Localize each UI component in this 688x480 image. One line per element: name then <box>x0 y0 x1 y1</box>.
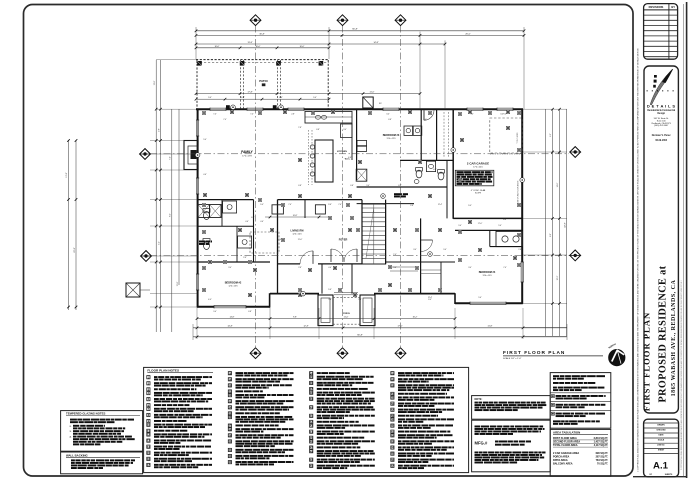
north arrow <box>608 344 625 366</box>
label WIC <box>345 159 351 161</box>
svg-text:(909) 452-3467: (909) 452-3467 <box>654 125 669 127</box>
svg-text:PROPOSED RESIDENCE at: PROPOSED RESIDENCE at <box>657 265 668 402</box>
powder text blobs <box>394 193 408 197</box>
window right wall 2 <box>521 262 524 282</box>
svg-text:13'-8": 13'-8" <box>66 172 68 177</box>
svg-text:JOB NO.: JOB NO. <box>657 445 665 447</box>
svg-text:8'-8": 8'-8" <box>503 219 507 221</box>
svg-text:TOTAL FLOOR AREA: TOTAL FLOOR AREA <box>553 444 578 447</box>
extra keynote boxes <box>202 111 520 291</box>
svg-text:6'-0": 6'-0" <box>279 97 283 99</box>
wall: bath4 bottom <box>490 246 523 248</box>
svg-text:4'-0": 4'-0" <box>208 299 212 301</box>
wall: hall lower right <box>278 199 363 201</box>
svg-text:PORCH: PORCH <box>343 313 350 315</box>
svg-text:1,427 SQ.FT.: 1,427 SQ.FT. <box>594 441 609 444</box>
svg-text:6'-8": 6'-8" <box>248 311 252 313</box>
svg-text:SCALE 1/4" = 1'-0": SCALE 1/4" = 1'-0" <box>503 357 522 360</box>
door arc living to hall <box>300 251 313 264</box>
svg-text:42'-8": 42'-8" <box>564 222 566 227</box>
wall: garage left <box>452 109 454 219</box>
svg-text:5'-0": 5'-0" <box>260 204 264 206</box>
interior dim line living <box>265 215 330 218</box>
svg-text:CHECKED: CHECKED <box>656 429 666 431</box>
svg-text:9'-0": 9'-0" <box>366 185 370 187</box>
svg-text:4,117 SQ.FT.: 4,117 SQ.FT. <box>594 444 609 447</box>
svg-text:AREA TABULATION: AREA TABULATION <box>553 431 580 435</box>
tempered glazing notes box <box>61 411 143 452</box>
svg-text:5'-4": 5'-4" <box>393 267 397 269</box>
wall: laundry bottom <box>400 159 453 161</box>
chimney box <box>363 97 383 108</box>
svg-text:2 CAR GARAGE: 2 CAR GARAGE <box>467 162 489 166</box>
svg-text:7'-0": 7'-0" <box>288 204 292 206</box>
svg-text:7'-0": 7'-0" <box>338 204 342 206</box>
sheet number box A.1 <box>644 419 679 477</box>
svg-text:70 SQ.FT.: 70 SQ.FT. <box>597 463 608 466</box>
keynote boxes <box>203 110 516 296</box>
wall: hall lower left <box>197 199 254 201</box>
svg-text:4'-6": 4'-6" <box>203 174 207 176</box>
window garage top 1 <box>467 108 483 111</box>
svg-text:FLOOR PLAN NOTES: FLOOR PLAN NOTES <box>147 369 179 373</box>
wall: right exterior <box>521 109 523 304</box>
copyright strip vertical tiny text <box>636 48 639 472</box>
patio post P1 <box>197 61 202 66</box>
svg-text:5'-4": 5'-4" <box>498 225 502 227</box>
svg-text:WALL BACKING: WALL BACKING <box>66 453 88 457</box>
entry double door arcs <box>331 249 357 262</box>
wall: bath row vertical 1 <box>221 200 223 227</box>
wall: hall right of stairs <box>386 261 421 263</box>
svg-text:11'-0": 11'-0" <box>344 317 349 319</box>
wall: bedroom2 right step <box>269 293 271 307</box>
svg-text:4'-6": 4'-6" <box>245 221 249 223</box>
dimension chain bottom <box>193 308 567 340</box>
svg-text:9'-0": 9'-0" <box>443 249 447 251</box>
kitchen counter top <box>305 111 352 123</box>
svg-text:TEMPERED GLAZING NOTES: TEMPERED GLAZING NOTES <box>66 412 105 416</box>
closet poles right of stairs <box>390 267 418 271</box>
wall: interior right wing <box>446 161 448 219</box>
svg-text:4'-6": 4'-6" <box>348 157 352 159</box>
room label FAMILY <box>241 150 253 158</box>
wall: stair right <box>385 200 387 264</box>
svg-text:PATIO: PATIO <box>259 79 268 83</box>
svg-text:6'-8": 6'-8" <box>350 185 354 187</box>
svg-text:3'-0": 3'-0" <box>423 119 427 121</box>
svg-text:6'-0": 6'-0" <box>241 97 245 99</box>
door arc bedroom3 hall <box>424 110 434 120</box>
grid reference diamond D at (145,154) <box>140 149 151 160</box>
wall: bedroom3 left <box>356 109 358 180</box>
left wall detail X box <box>126 283 150 297</box>
svg-text:56'-8": 56'-8" <box>357 335 363 337</box>
drawing title FIRST FLOOR PLAN <box>503 350 603 360</box>
wall: stair left <box>361 200 363 264</box>
bath toilet upper <box>203 209 210 220</box>
reference grid dash-dot lines <box>150 26 570 349</box>
room label BEDROOM 4 <box>479 271 496 277</box>
window garage top 2 <box>497 108 513 111</box>
wall: powder bottom <box>357 203 414 205</box>
svg-text:12'-4": 12'-4" <box>438 204 443 206</box>
svg-text:9'-8": 9'-8" <box>293 317 297 319</box>
svg-text:SLOPE: SLOPE <box>475 192 482 194</box>
svg-text:7'-8": 7'-8" <box>298 127 302 129</box>
svg-text:9'-0": 9'-0" <box>458 225 462 227</box>
window top wall 4 <box>383 108 399 111</box>
column box living right <box>315 205 325 214</box>
window top wall 3 <box>288 108 304 111</box>
entry threshold <box>334 293 358 295</box>
bath3b toilet <box>438 170 445 180</box>
wall stub nook <box>304 200 306 218</box>
bath3 sink <box>414 180 419 184</box>
svg-text:5'-4": 5'-4" <box>208 97 212 99</box>
window bedroom4 bottom <box>470 302 506 305</box>
svg-text:LINE OF 2ND FLOOR ABOVE: LINE OF 2ND FLOOR ABOVE <box>516 180 519 204</box>
svg-text:690 SQ.FT.: 690 SQ.FT. <box>596 452 609 455</box>
wall: hall vertical a <box>253 200 255 262</box>
revisions table <box>644 4 678 60</box>
washer <box>357 141 367 152</box>
svg-text:5'-4": 5'-4" <box>328 299 332 301</box>
svg-text:13'0 x 15'0: 13'0 x 15'0 <box>482 275 491 277</box>
svg-text:2'-6": 2'-6" <box>243 257 247 259</box>
wall: bedroom3 right <box>420 109 422 161</box>
svg-text:FIRST FLOOR PLAN: FIRST FLOOR PLAN <box>503 350 565 356</box>
svg-text:DATE: DATE <box>658 433 664 436</box>
svg-text:2'-8": 2'-8" <box>291 114 295 116</box>
sheet right edge border line <box>686 2 688 478</box>
svg-text:10'-0": 10'-0" <box>256 46 261 48</box>
svg-text:5'-4": 5'-4" <box>478 297 482 299</box>
wall: bedroom4 wing left step <box>454 293 456 304</box>
svg-text:BEDROOM #4: BEDROOM #4 <box>479 271 496 274</box>
svg-text:30'-8": 30'-8" <box>259 33 265 35</box>
master closet dashed <box>250 232 279 253</box>
wall: bottom of bedroom2 wing <box>197 306 270 308</box>
svg-text:7'-0": 7'-0" <box>223 119 227 121</box>
room label BEDROOM 2 <box>225 282 242 288</box>
window bedroom2 bottom <box>214 305 246 308</box>
patio post P3 <box>276 61 281 66</box>
closet right wing <box>421 262 441 294</box>
bath label blobs <box>199 241 212 245</box>
dimension chain patio <box>195 92 422 101</box>
svg-text:4'-6": 4'-6" <box>260 221 264 223</box>
svg-text:FOYER: FOYER <box>339 239 348 242</box>
svg-text:12'-8": 12'-8" <box>303 326 308 328</box>
wall: bottom center left of porch <box>270 293 319 295</box>
svg-text:8'-0": 8'-0" <box>550 233 552 237</box>
dimension chain left <box>66 60 197 332</box>
room label FOYER <box>339 239 348 242</box>
window left wall 3 <box>196 274 199 290</box>
closet dashed garage side <box>444 112 449 158</box>
svg-text:11'-8": 11'-8" <box>177 281 179 286</box>
dryer <box>404 126 422 135</box>
svg-text:06-09-2004: 06-09-2004 <box>655 139 667 142</box>
svg-text:9'-0": 9'-0" <box>383 204 387 206</box>
title text 1865 WABASH AVE REDLANDS CA <box>671 280 677 397</box>
kitchen fridge <box>341 124 353 138</box>
svg-text:SHEETS: SHEETS <box>665 474 673 476</box>
wall: hall vertical b <box>277 200 279 294</box>
patio roof dashed outline <box>196 60 329 109</box>
wall: bath4 left <box>489 230 491 246</box>
svg-text:2,844 SQ.FT.: 2,844 SQ.FT. <box>594 437 609 440</box>
svg-text:7'-0": 7'-0" <box>213 114 217 116</box>
garage toc note <box>517 132 519 144</box>
svg-text:5'-4": 5'-4" <box>203 139 207 141</box>
svg-text:10'-0": 10'-0" <box>215 46 220 48</box>
garage slab note <box>471 189 486 195</box>
wall: entry side left <box>321 264 323 294</box>
svg-text:56'-8": 56'-8" <box>352 29 358 31</box>
wall: hall below garage <box>420 218 422 293</box>
svg-text:5'-4": 5'-4" <box>313 97 317 99</box>
svg-text:10'-8": 10'-8" <box>293 215 298 217</box>
window top wall 2 <box>247 108 263 111</box>
grid reference diamond B at (342.5,20.2) <box>337 15 348 26</box>
svg-text:6'-8": 6'-8" <box>316 129 320 131</box>
svg-text:11'-8": 11'-8" <box>488 326 493 328</box>
porch dashed edge <box>333 297 360 324</box>
svg-text:3'-0": 3'-0" <box>386 114 390 116</box>
window top wall 1 <box>210 108 226 111</box>
svg-text:287 SQ.FT.: 287 SQ.FT. <box>596 455 609 458</box>
svg-text:16'-2": 16'-2" <box>413 317 418 319</box>
svg-text:12'0 x 14'0: 12'0 x 14'0 <box>292 234 301 236</box>
circled wall markers <box>195 105 524 296</box>
svg-text:A.1: A.1 <box>653 461 669 472</box>
garage dotted line <box>490 153 521 155</box>
grid reference diamond C at (400.5,353.2) <box>395 348 406 359</box>
svg-text:SCALE: SCALE <box>658 438 665 441</box>
svg-text:26'-0": 26'-0" <box>465 33 471 35</box>
svg-text:NOTE:: NOTE: <box>475 398 483 401</box>
title text PROPOSED RESIDENCE at <box>657 265 668 402</box>
svg-text:23'-8": 23'-8" <box>74 247 76 252</box>
svg-text:13'-8": 13'-8" <box>247 42 252 44</box>
svg-text:17'-8": 17'-8" <box>247 92 252 94</box>
svg-text:2'-8": 2'-8" <box>298 267 302 269</box>
svg-text:14'-8": 14'-8" <box>373 42 378 44</box>
svg-text:REVISIONS: REVISIONS <box>649 5 664 9</box>
linen X cabinets <box>198 205 221 218</box>
svg-text:Norman V. Perez: Norman V. Perez <box>652 134 672 137</box>
svg-text:784 SQ.FT.: 784 SQ.FT. <box>596 459 609 462</box>
svg-text:11'-0": 11'-0" <box>370 92 375 94</box>
title text FIRST FLOOR PLAN <box>642 312 652 411</box>
door arc hall-bedroom4 <box>421 240 433 252</box>
kitchen sink <box>315 115 326 119</box>
insulation notes box <box>550 373 611 429</box>
grid reference diamond E at (575.2,152) <box>570 147 581 158</box>
svg-text:* T.O.C. NOTE: * T.O.C. NOTE <box>517 132 519 144</box>
svg-text:2'-8": 2'-8" <box>358 299 362 301</box>
svg-text:Residential & Commercial: Residential & Commercial <box>647 109 675 112</box>
grid reference diamond C at (400.5,20.2) <box>395 15 406 26</box>
wall: garage bottom <box>453 217 523 219</box>
svg-text:6'-8": 6'-8" <box>298 185 302 187</box>
grid reference diamond B at (342.5,353.2) <box>337 348 348 359</box>
svg-text:FIRST FLOOR PLAN: FIRST FLOOR PLAN <box>642 312 652 411</box>
svg-text:6'-8": 6'-8" <box>388 119 392 121</box>
svg-text:14'-8": 14'-8" <box>230 317 235 319</box>
svg-text:4" CONC. SLAB: 4" CONC. SLAB <box>471 189 486 192</box>
svg-text:KITCHEN: KITCHEN <box>337 151 347 153</box>
room label PATIO <box>259 79 268 86</box>
bath3 toilet <box>416 168 423 178</box>
patio post P2 <box>240 61 245 66</box>
patio post on wall P6 <box>273 105 277 109</box>
right margin strip line and text <box>680 4 683 477</box>
svg-text:3'-0": 3'-0" <box>228 267 232 269</box>
svg-text:SHEET: SHEET <box>658 450 665 452</box>
svg-text:7'-4": 7'-4" <box>393 254 397 256</box>
wall: bedroom2 top <box>197 261 270 263</box>
svg-text:17'-0": 17'-0" <box>397 326 402 328</box>
svg-text:1865 WABASH AVE., REDLANDS, CA: 1865 WABASH AVE., REDLANDS, CA <box>671 280 677 397</box>
room label KITCHEN <box>337 151 347 153</box>
bath vanity upper <box>223 201 237 213</box>
wall: living-foyer divider <box>278 263 301 265</box>
svg-text:4'-6": 4'-6" <box>328 267 332 269</box>
kitchen island stools <box>310 145 314 176</box>
svg-text:3'-0": 3'-0" <box>413 249 417 251</box>
svg-text:PATIO AREA: PATIO AREA <box>553 459 568 462</box>
kitchen pantry shelves <box>309 130 313 185</box>
wall backing notes box <box>61 452 143 474</box>
wall: bottom of bedroom4 wing <box>455 302 523 304</box>
staircase <box>362 204 386 264</box>
kitchen island <box>315 140 333 182</box>
svg-text:11'-0": 11'-0" <box>298 239 303 241</box>
svg-text:BALCONY AREA: BALCONY AREA <box>553 463 573 466</box>
grid reference diamond A at (255.5,353.2) <box>250 348 261 359</box>
svg-text:7'-0": 7'-0" <box>170 156 172 160</box>
svg-text:14'-6": 14'-6" <box>557 182 559 187</box>
window left wall 1 <box>196 120 199 136</box>
room label 2 CAR GARAGE <box>467 162 489 169</box>
wall: closet top right wing <box>421 261 455 263</box>
closet X box right wing <box>356 169 367 181</box>
svg-text:14'-8": 14'-8" <box>227 326 232 328</box>
bath vanity lower <box>238 236 252 248</box>
wall: top exterior <box>196 108 523 110</box>
wall: bottom center right of porch <box>374 293 455 295</box>
svg-text:2'-8": 2'-8" <box>410 205 414 207</box>
svg-text:12'-8": 12'-8" <box>154 80 156 85</box>
svg-text:3'-0": 3'-0" <box>343 129 347 131</box>
svg-text:6'-0": 6'-0" <box>433 169 437 171</box>
svg-text:17'0 x 24'0: 17'0 x 24'0 <box>473 167 483 169</box>
dimension chain right <box>523 108 567 337</box>
svg-text:2'-8": 2'-8" <box>518 249 522 251</box>
wall: bath4 top <box>455 229 523 231</box>
patio post P4 <box>319 61 324 66</box>
note box upper <box>472 396 551 420</box>
scattered interior dimension texts <box>208 127 507 301</box>
svg-text:BEDROOM #3: BEDROOM #3 <box>383 134 400 137</box>
extra interior dimension texts <box>203 114 522 314</box>
svg-text:FAMILY: FAMILY <box>241 150 253 154</box>
svg-text:FIRST FLOOR AREA: FIRST FLOOR AREA <box>553 437 577 440</box>
porch pedestal right <box>360 295 375 326</box>
garage right wall rotated note <box>516 180 519 204</box>
wall stub kitchen right <box>351 123 353 160</box>
bath toilet lower <box>203 239 210 250</box>
column box living left <box>272 205 283 214</box>
dimension chain top <box>195 27 526 109</box>
porch label <box>343 313 350 315</box>
svg-text:3'-6": 3'-6" <box>328 204 332 206</box>
svg-text:9'-2": 9'-2" <box>550 133 552 137</box>
svg-text:10'-0": 10'-0" <box>300 46 305 48</box>
bath small vanity <box>426 161 435 171</box>
svg-text:6'-8": 6'-8" <box>398 185 402 187</box>
window left wall 2 <box>196 178 199 194</box>
svg-text:D E T A I L S: D E T A I L S <box>647 104 676 109</box>
svg-text:3'-0": 3'-0" <box>428 299 432 301</box>
grid reference diamond D2 at (146,256) <box>141 251 152 262</box>
svg-text:2 CAR GARAGE AREA: 2 CAR GARAGE AREA <box>553 452 579 455</box>
svg-text:DRAWN: DRAWN <box>657 423 665 426</box>
svg-text:8'-2": 8'-2" <box>170 213 172 217</box>
fireplace bump-out <box>184 141 198 170</box>
wall: laundry right vertical <box>436 109 438 161</box>
svg-text:11'0 x 12'0: 11'0 x 12'0 <box>387 138 396 140</box>
sheet bottom edge segment under title column <box>633 476 687 478</box>
garage second floor dashed line <box>490 118 522 153</box>
svg-text:LIVING RM: LIVING RM <box>291 230 304 233</box>
wall: left exterior <box>197 109 199 308</box>
svg-text:7'-0": 7'-0" <box>503 267 507 269</box>
svg-text:9'-0": 9'-0" <box>213 311 217 313</box>
area tabulation table <box>550 429 611 476</box>
svg-text:12'0 x 13'6: 12'0 x 13'6 <box>228 286 237 288</box>
details design firm logo box <box>644 66 678 413</box>
bath4 counter <box>496 231 522 246</box>
wall: foyer entry left <box>318 263 362 265</box>
svg-text:3'-0": 3'-0" <box>468 267 472 269</box>
patio post on wall P5 <box>226 105 230 109</box>
svg-text:SECOND FLOOR AREA: SECOND FLOOR AREA <box>553 441 580 444</box>
room label BEDROOM 3 <box>383 134 400 140</box>
grid reference diamond F at (575.2,255.4) <box>570 250 581 261</box>
svg-text:9'-8": 9'-8" <box>158 128 160 132</box>
svg-text:9'-0": 9'-0" <box>468 205 472 207</box>
svg-text:5'-4": 5'-4" <box>158 241 160 245</box>
svg-text:7'-0": 7'-0" <box>250 114 254 116</box>
note box lower <box>472 420 551 472</box>
svg-text:PORCH AREA: PORCH AREA <box>553 455 570 458</box>
svg-text:17'-0": 17'-0" <box>478 223 483 225</box>
svg-text:BEDROOM #2: BEDROOM #2 <box>225 282 242 285</box>
svg-text:10'-2": 10'-2" <box>557 275 559 280</box>
wall: bath row mid horizontal <box>197 225 254 227</box>
porch pedestal left <box>318 295 333 326</box>
svg-text:5'-6": 5'-6" <box>328 289 332 291</box>
svg-text:6'-8": 6'-8" <box>251 217 255 219</box>
svg-text:BY: BY <box>671 5 675 9</box>
svg-text:17'0 x 19'8: 17'0 x 19'8 <box>242 156 252 158</box>
garage note text block <box>455 170 494 186</box>
wall: bath row vertical 2 <box>236 226 238 262</box>
